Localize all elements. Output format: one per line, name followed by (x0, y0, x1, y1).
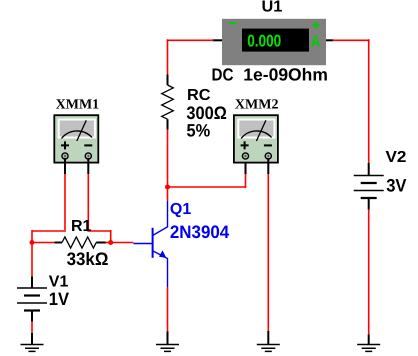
svg-text:V2: V2 (386, 149, 407, 166)
svg-text:3V: 3V (386, 175, 406, 195)
label 5% (187, 121, 211, 141)
XMM1 minus pin (black) (87, 158, 89, 174)
label 2N3904 (170, 222, 229, 242)
V1 top pin (black) (31, 277, 33, 289)
wire U1 right to V2 (red) (333, 39, 370, 163)
V2 bottom pin (black) (368, 198, 370, 210)
resistor R1 (62, 237, 96, 248)
svg-text:2N3904: 2N3904 (170, 222, 229, 242)
ground under Q1 (156, 345, 179, 352)
XMM1 gauge needle (77, 120, 87, 141)
XMM1 minus mark (84, 144, 92, 146)
U1 plus polarity mark (312, 22, 319, 29)
svg-text:XMM2: XMM2 (235, 97, 279, 112)
U1 caption DC 1e-09Ohm (212, 65, 328, 85)
node B junction (R1 right) (108, 240, 113, 245)
transistor Q1 (134, 201, 168, 287)
wire collector node to XMM2 plus (red) (168, 174, 246, 188)
label 1V (49, 289, 69, 309)
ammeter U1 body (222, 19, 326, 65)
wire Q1 emitter to ground (red) (167, 287, 169, 331)
XMM1 plus mark (61, 141, 69, 149)
XMM1 plus pin (black) (64, 158, 66, 174)
wire XMM2 minus to ground (red) (267, 174, 269, 331)
wire U1 right pin (black) (326, 39, 334, 41)
wire XMM1 plus to node A (red) (32, 174, 66, 243)
ground pin below Q1 (black) (167, 331, 169, 344)
label XMM2 (235, 97, 279, 112)
XMM2 gauge arc (241, 131, 272, 139)
multimeter XMM2 body (234, 115, 278, 162)
wire U1 left pin (black) (213, 39, 223, 41)
svg-text:5%: 5% (187, 121, 211, 141)
battery V1 (17, 288, 47, 311)
svg-text:RC: RC (187, 87, 211, 104)
wire U1 left to RC top (red) (167, 39, 214, 74)
label Q1 (170, 201, 191, 218)
ground under V1 (21, 345, 44, 352)
svg-text:U1: U1 (262, 0, 283, 15)
XMM2 gauge needle (256, 120, 266, 141)
svg-text:A: A (311, 33, 321, 50)
svg-text:Q1: Q1 (170, 201, 191, 218)
ground under V2 (357, 345, 380, 352)
ground under XMM2 (257, 345, 280, 352)
wire V1 to ground (red) (31, 322, 33, 334)
XMM2 plus terminal (242, 153, 248, 159)
label V1 (49, 273, 69, 290)
label 3V (386, 175, 406, 195)
R1 left pin (black) (55, 242, 63, 244)
node collector junction (165, 185, 170, 190)
svg-text:R1: R1 (71, 218, 92, 235)
XMM2 minus mark (264, 144, 272, 146)
V1 bottom pin (black) (31, 311, 33, 322)
wire RC bottom to collector node (red) (167, 130, 169, 202)
svg-text:DC: DC (212, 65, 234, 85)
svg-text:V1: V1 (49, 273, 69, 290)
wire node A to V1 (red) (31, 243, 33, 277)
ground pin below V2 (black) (368, 335, 370, 345)
svg-text:1e-09Ohm: 1e-09Ohm (243, 65, 328, 85)
V2 top pin (black) (368, 163, 370, 176)
svg-text:XMM1: XMM1 (56, 97, 100, 112)
multimeter XMM1 body (54, 115, 98, 162)
label U1 (262, 0, 283, 15)
U1 display reading 0.000 (247, 31, 281, 50)
battery V2 (354, 176, 384, 199)
XMM2 plus pin (black) (245, 159, 247, 174)
wire node A to R1 (red) (32, 242, 55, 244)
node A junction (R1 left) (30, 240, 35, 245)
XMM2 plus mark (241, 141, 249, 149)
svg-text:33kΩ: 33kΩ (67, 249, 109, 269)
XMM2 minus pin (black) (267, 158, 269, 174)
RC bottom pin (black) (167, 119, 169, 129)
R1 right pin (black) (96, 242, 105, 244)
XMM1 gauge arc (62, 131, 93, 139)
U1 unit A (311, 33, 321, 50)
svg-text:1V: 1V (49, 289, 69, 309)
wire node B to Q1 base (red) (111, 242, 134, 244)
ground pin below V1 (black) (31, 333, 33, 345)
resistor RC (162, 85, 174, 119)
wire R1 to node B (red) (106, 242, 111, 244)
svg-text:0.000: 0.000 (247, 31, 281, 50)
XMM1 minus terminal (85, 153, 91, 159)
label RC (187, 87, 211, 104)
wire V2 to ground (red) (368, 210, 370, 335)
XMM1 plus terminal (62, 153, 68, 159)
U1 minus polarity mark (230, 22, 237, 24)
label R1 (71, 218, 92, 235)
label 300ohm (186, 103, 226, 123)
ground pin below XMM2 (black) (267, 331, 269, 345)
label 33kohm (67, 249, 109, 269)
label XMM1 (56, 97, 100, 112)
wire XMM1 minus to node B (red) (87, 174, 110, 243)
XMM2 minus terminal (265, 153, 271, 159)
label V2 (386, 149, 407, 166)
RC top pin (black) (167, 75, 169, 86)
